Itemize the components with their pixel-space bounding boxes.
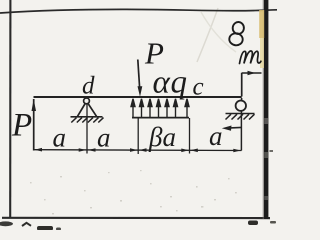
svg-text:c: c (193, 74, 204, 101)
top border line (0, 9, 277, 13)
svg-text:a: a (97, 122, 111, 152)
dimension arrowheads (35, 148, 241, 152)
moment couple lower arrowhead (222, 126, 232, 131)
force P middle arrowhead (138, 86, 143, 97)
svg-text:a: a (53, 122, 67, 152)
moment couple upper arrowhead (248, 71, 256, 76)
distributed load base line (132, 117, 189, 119)
bottom smudges (next row artifacts) (0, 221, 13, 226)
yellow scan streak (259, 10, 264, 38)
extension line at node c (189, 118, 191, 154)
extension line at node d (86, 104, 88, 154)
moment couple vertical lever above beam (241, 73, 243, 97)
svg-text:βa: βa (148, 122, 176, 152)
force P left arrow shaft (upward, also left extension line) (33, 99, 35, 151)
roller support stem (241, 98, 243, 101)
pin support ground hatching (71, 118, 103, 123)
extension line at load start (137, 119, 139, 155)
moment couple upper arrow shaft (rightward) (242, 72, 262, 74)
pin support triangle at d (78, 103, 97, 116)
moment couple lower arrow shaft (leftward) (230, 126, 242, 129)
moment m label (240, 51, 261, 64)
roller support ground hatching (226, 114, 255, 119)
right page-edge dark band (264, 0, 269, 219)
dimension line (34, 149, 242, 152)
faint pencil curves near number (197, 8, 218, 62)
left border line (9, 0, 11, 217)
pin support hinge circle at d (84, 98, 90, 104)
roller support ground line (226, 113, 255, 115)
svg-text:P: P (11, 108, 32, 144)
beam (34, 96, 242, 98)
distributed load alpha-q arrows (upward under beam) (131, 99, 189, 118)
force P left arrowhead (32, 99, 37, 111)
svg-text:d: d (82, 73, 95, 100)
scan speckles (30, 170, 237, 214)
small tick right of band (270, 150, 274, 152)
roller support circle (236, 101, 246, 111)
pin support base line (71, 116, 103, 118)
moment couple vertical lever below support (also right extension line) (240, 111, 242, 151)
problem number 8 (229, 21, 245, 46)
force P middle arrow shaft (downward) (138, 60, 140, 90)
svg-text:q: q (171, 65, 188, 101)
svg-text:a: a (209, 121, 223, 151)
svg-text:α: α (153, 65, 171, 101)
bottom border line (2, 217, 270, 220)
right band texture gaps (264, 118, 268, 124)
